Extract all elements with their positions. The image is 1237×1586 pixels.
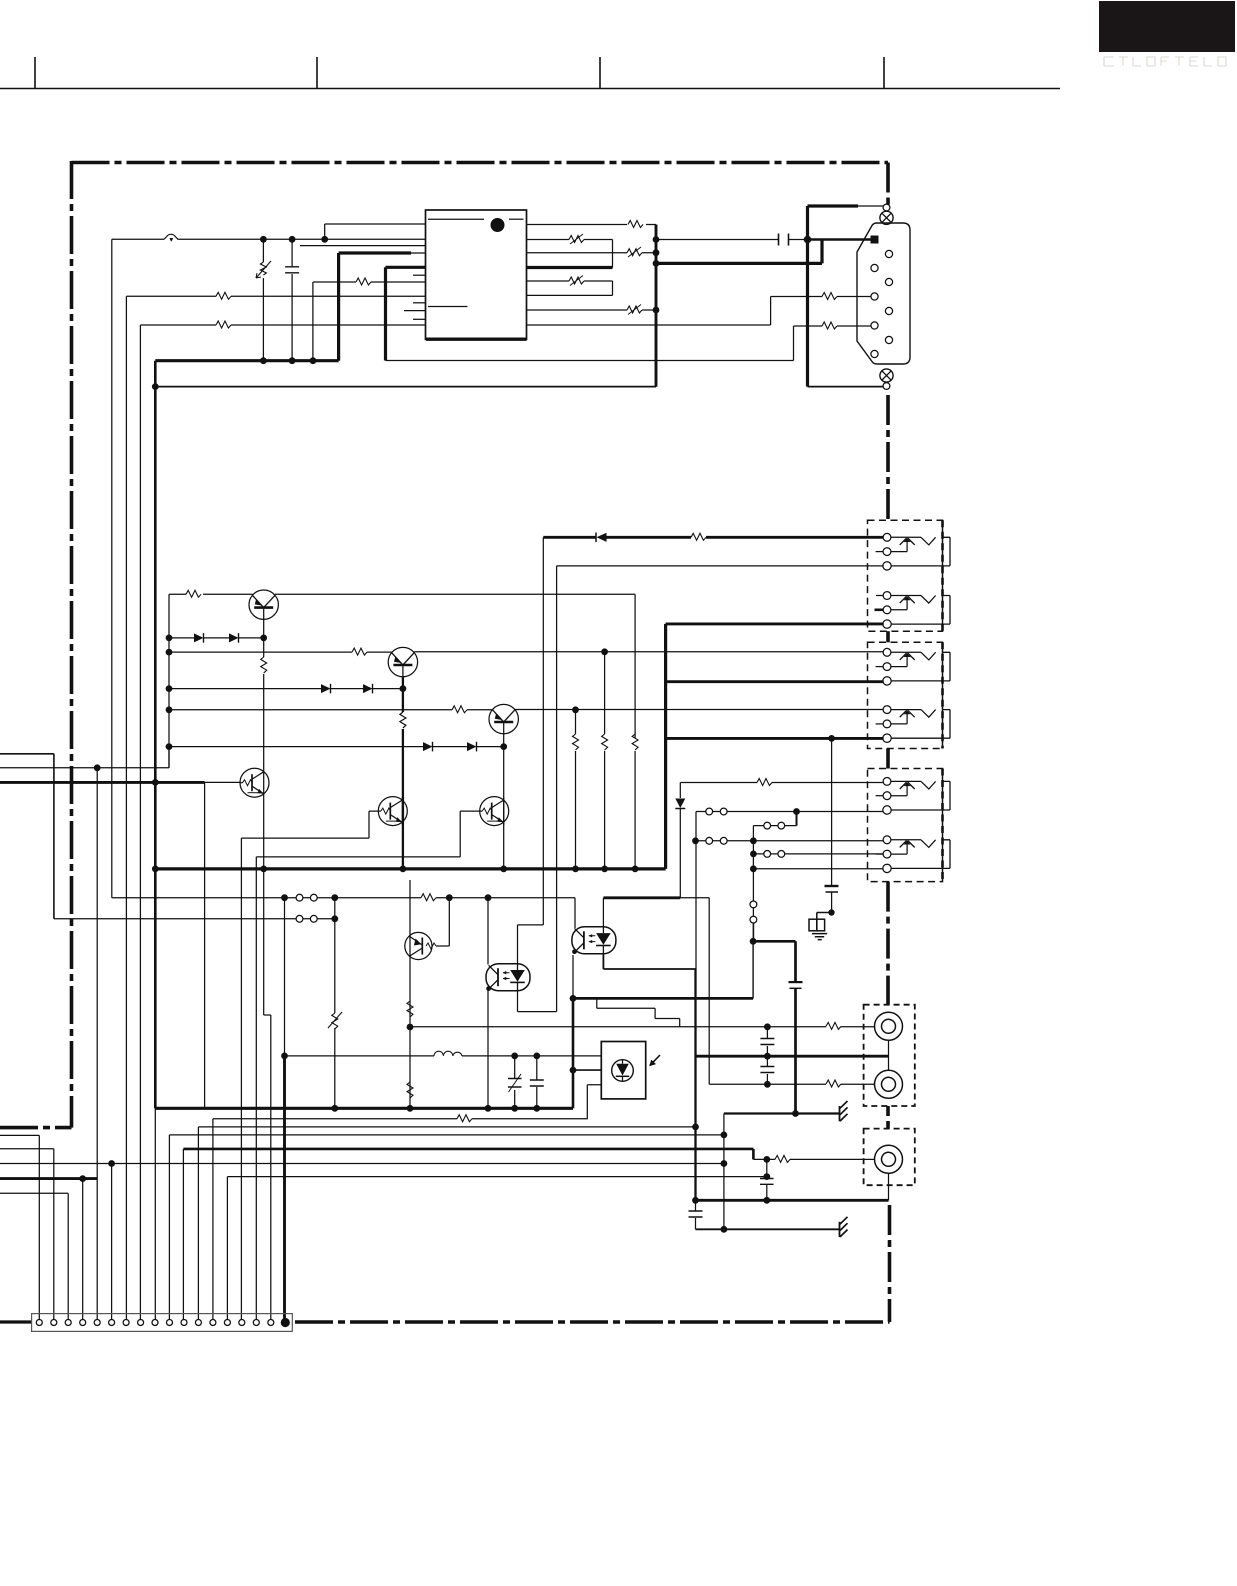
wire to J6 bottom bbox=[750, 865, 884, 872]
capacitor C1 bbox=[285, 239, 299, 360]
transistor Q1 bbox=[249, 590, 278, 619]
riser x140 (pin8) bbox=[139, 325, 141, 1320]
wire x656 corner to left bbox=[152, 383, 656, 390]
optocoupler U3 bbox=[572, 898, 616, 999]
frame border bottom-left stub bbox=[0, 1126, 72, 1130]
IC U1 pin-1 mark bbox=[491, 218, 505, 232]
thick bus into IC pin (y253) bbox=[339, 253, 425, 361]
riser x126 (pin7) bbox=[125, 296, 127, 1319]
cap C5 line x536 bbox=[530, 1056, 544, 1108]
wire y1163 from page left bbox=[0, 1160, 727, 1167]
IC loop2 with bead L3 bbox=[526, 276, 613, 296]
Q4 through line bbox=[264, 869, 271, 1320]
diode D3 bbox=[169, 684, 331, 694]
wire Q3 collector to jack J4 bbox=[515, 706, 884, 713]
connector strip CN1 bbox=[32, 1314, 293, 1332]
wire y282 with resistor R4 bbox=[313, 278, 425, 361]
thick riser pin18 bbox=[281, 1053, 288, 1320]
pin1 wire bbox=[0, 1135, 39, 1319]
thick wire from page left y782 bbox=[0, 782, 240, 1108]
RCA jack P1 bbox=[875, 1012, 903, 1040]
thick bus B y869 bbox=[155, 866, 665, 873]
cap C4 line x514 bbox=[508, 1056, 522, 1108]
riser pin13 bbox=[212, 1119, 214, 1320]
vertical x334 with thermistor TH2 bbox=[328, 898, 342, 1109]
pulldown resistor on x635 R15 bbox=[632, 734, 638, 869]
pin4 thick wire bbox=[0, 1175, 97, 1319]
capacitor C2 on dsub wire bbox=[653, 234, 812, 246]
cap C9 below bus D bbox=[689, 1200, 703, 1229]
ground wire y1229 bbox=[696, 1226, 840, 1233]
IC U1 body bbox=[404, 210, 527, 339]
thick wire J1 top with diode D7 and resistor R16 bbox=[543, 533, 883, 925]
diode D1 bbox=[169, 633, 204, 643]
frame border bottom bbox=[295, 1320, 890, 1324]
resistor R5 to dsub bbox=[822, 322, 871, 329]
riser pin10 bbox=[168, 1135, 170, 1320]
riser pin11 bbox=[182, 1149, 184, 1320]
wire y897 bus bbox=[112, 894, 575, 901]
jumper row4 to J6 mid bbox=[750, 851, 884, 858]
vertical x753 with jumper pair bbox=[750, 854, 757, 941]
black index tab bbox=[1099, 1, 1235, 52]
dsub pin 9 bbox=[871, 350, 878, 357]
jack box 2 bbox=[868, 642, 943, 748]
Q5 through line bbox=[402, 797, 404, 825]
thick bus C y1108 bbox=[155, 1105, 573, 1112]
thick wire to dsub pin1 bbox=[808, 238, 872, 241]
chassis ground symbol G3 bbox=[840, 1217, 848, 1237]
dsub pin 1 (filled) bbox=[871, 236, 879, 244]
transistor Q4 bbox=[240, 768, 269, 797]
riser x112 bbox=[111, 239, 113, 897]
thick wire to J3 bottom bbox=[666, 680, 884, 683]
ruler tick 3 bbox=[599, 57, 601, 89]
RCA link P1-P2 bbox=[888, 1040, 890, 1070]
diode D6 bbox=[433, 742, 507, 752]
U2 LED anode jog bbox=[518, 925, 544, 965]
wire y1119 from pin13 with resistor R22 bbox=[213, 1115, 588, 1122]
page-left jog wire bbox=[0, 754, 54, 919]
dsub pin 6 bbox=[885, 307, 892, 314]
wire y1127 from pin12 bbox=[198, 1126, 695, 1128]
cap C6 x767 upper bbox=[760, 1027, 774, 1056]
wire y242 bbox=[300, 245, 426, 247]
dsub top screw bbox=[880, 204, 893, 224]
jack box 1 bbox=[868, 520, 943, 631]
wire y360 to dsub jog bbox=[386, 326, 823, 361]
transistor Q6 bbox=[480, 797, 509, 826]
Q1 stem with resistor R9 bbox=[261, 619, 267, 869]
J2 top stub bbox=[876, 595, 884, 597]
dsub pin 8 bbox=[885, 336, 892, 343]
phone jack J6 bbox=[876, 836, 950, 873]
dsub pin 4 bbox=[885, 278, 892, 285]
ruler tick 2 bbox=[316, 57, 318, 89]
dsub pin 2 bbox=[885, 250, 892, 257]
resistor R6 to dsub bbox=[822, 293, 871, 300]
jack box 3 bbox=[868, 769, 943, 882]
IC right pin A: resistor R7 bbox=[526, 221, 656, 387]
RCA jack P2 bbox=[875, 1070, 903, 1098]
Q6 through line bbox=[503, 797, 505, 825]
pin2 wire bbox=[0, 1149, 54, 1320]
wire Q1 base row + resistor R8 bbox=[169, 590, 253, 597]
jumper row2 bbox=[753, 822, 796, 854]
bus riser x155 bbox=[152, 361, 159, 1320]
left bus x169 bbox=[166, 594, 173, 768]
earth ground G1 bbox=[809, 909, 835, 939]
phone jack J4 bbox=[876, 706, 950, 743]
U2 LED cathode jog bbox=[518, 990, 557, 1012]
photodetector U4 bbox=[601, 1042, 660, 1099]
vertical x284 bbox=[284, 898, 286, 1056]
dsub pin 7 bbox=[871, 322, 878, 329]
riser pin14 bbox=[226, 1177, 228, 1320]
frame border right segments bbox=[886, 163, 890, 206]
diode D5 bbox=[169, 742, 433, 752]
Q2 stem thick with resistor R11 bbox=[400, 677, 406, 869]
wire y296 with resistor R2 bbox=[126, 292, 425, 299]
RCA jack P3 bbox=[875, 1145, 903, 1173]
RCA box 2 bbox=[864, 1129, 915, 1186]
wire y1027 to P1 with resistor R20 bbox=[410, 1022, 875, 1030]
U3 LED cathode jog thick bbox=[603, 955, 695, 970]
cap C8 x767 to bus bbox=[760, 1159, 774, 1203]
diode D2 bbox=[204, 633, 267, 643]
dsub shield line bbox=[808, 206, 884, 387]
phone jack J5 bbox=[876, 778, 950, 815]
riser x97 (pin5) bbox=[96, 768, 98, 1320]
phone jack J2 bbox=[876, 592, 950, 629]
phone jack J3 bbox=[876, 648, 950, 685]
U3 emitter thick wire A bbox=[570, 938, 803, 1114]
diode D4 bbox=[331, 684, 406, 694]
Q1 collector wire to x635 bbox=[275, 594, 635, 738]
wire y325 with resistor R3 bbox=[140, 321, 425, 328]
transistor Q7 bbox=[405, 880, 450, 1108]
RCA box 1 bbox=[864, 1005, 915, 1106]
wire y1135 from pin10 bbox=[169, 1132, 727, 1139]
thick wire to J2 bottom bbox=[666, 622, 884, 625]
wire IC pin1 left bbox=[325, 224, 425, 239]
wire y768 exiting left bbox=[0, 747, 169, 772]
Q6 base path (pin16 riser) bbox=[256, 811, 479, 1320]
vertical x695 bbox=[692, 812, 699, 1204]
thick bus D y1200 bbox=[696, 1173, 889, 1200]
IC loop1 with bead L1 bbox=[526, 234, 613, 268]
dsub pin 5 bbox=[871, 293, 878, 300]
dsub bottom screw bbox=[880, 369, 893, 390]
phone jack J1 bbox=[876, 533, 950, 570]
wire J1 bottom bbox=[557, 566, 884, 1012]
cap C7 x767 lower bbox=[760, 1056, 774, 1084]
pulldown resistor line x575 R13 bbox=[573, 710, 579, 869]
thick wire IC pin y267 bbox=[386, 267, 426, 360]
frame border top (dash-dot) bbox=[72, 161, 889, 165]
inductor wire y1056 bbox=[285, 1051, 602, 1059]
wire to P3 with resistor R23 bbox=[753, 1155, 874, 1162]
riser pin12 bbox=[197, 1127, 199, 1320]
thick wire y1149 from pin11 to P3 bbox=[183, 1149, 753, 1160]
pulldown resistor line x604 R14 bbox=[601, 648, 608, 869]
IC pin C bead L2 bbox=[526, 247, 659, 257]
thick bus A y361 bbox=[155, 357, 338, 364]
dsub connector J7 outline bbox=[857, 223, 910, 364]
jumper row3 to J6 top bbox=[692, 837, 884, 844]
pin3 wire bbox=[0, 1193, 68, 1319]
photodetector pin3 wire bbox=[587, 1085, 601, 1119]
thick vertical x665 bbox=[664, 624, 667, 869]
wire y1177 from pin14 bbox=[227, 1173, 770, 1180]
wire y1084 to P2 with resistor R21 bbox=[709, 1080, 874, 1088]
chassis ground symbol G2 bbox=[840, 1101, 848, 1121]
Q3 stem bbox=[503, 734, 505, 869]
wire Q2 base row + resistor R10 bbox=[169, 648, 392, 655]
thick RCA shield wire y1056 bbox=[696, 1053, 889, 1060]
transistor Q5 bbox=[378, 797, 407, 826]
thick L to dsub pin1 bbox=[653, 240, 822, 267]
thermistor TH1 bbox=[256, 239, 271, 360]
ruler tick 4 bbox=[883, 57, 885, 89]
ruler line bbox=[0, 88, 1060, 90]
wire IC right y325 to dsub jog bbox=[526, 297, 822, 326]
dsub pin 3 bbox=[871, 264, 878, 271]
frame border left bbox=[70, 161, 74, 1128]
Q5 base path (pin15 riser) bbox=[241, 811, 378, 1320]
wire y919 bbox=[54, 915, 338, 922]
wire y239 with thermal fuse F1 bbox=[112, 234, 426, 242]
wire Q3 base row + resistor R12 bbox=[169, 706, 493, 713]
wire with diode D8 and resistor R17 to J5 top bbox=[675, 779, 883, 898]
optocoupler U2 bbox=[486, 898, 530, 1109]
transistor Q2 bbox=[388, 647, 417, 676]
photodetector pin2 wire bbox=[570, 1067, 602, 1074]
Q7 lower resistors R18 R19 bbox=[407, 1001, 414, 1098]
thick wire to J4 bottom bbox=[666, 735, 884, 742]
frame bottom-left solid lead bbox=[0, 1320, 32, 1323]
ghost heading under tab bbox=[1104, 57, 1226, 66]
wire Q2 collector to jack J3 bbox=[414, 651, 884, 653]
cap C3 under J4 wire bbox=[825, 738, 839, 912]
jumper row1 to J5 bottom bbox=[696, 808, 884, 826]
J2 mid stub thick bbox=[875, 608, 884, 611]
chassis wire y1115 bbox=[680, 898, 839, 1230]
IC pin F bead L4 bbox=[526, 305, 659, 315]
transistor Q3 bbox=[489, 704, 518, 733]
riser x111 lower (pin6) bbox=[111, 1164, 113, 1320]
U3 LED anode thick wire bbox=[603, 898, 680, 928]
ruler tick 1 bbox=[34, 57, 36, 89]
